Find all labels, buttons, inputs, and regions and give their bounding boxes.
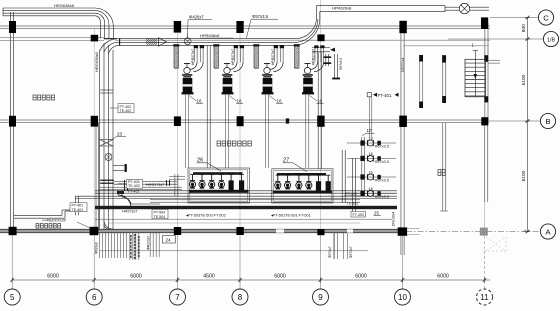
column grid11/A light [480,228,488,236]
svg-text:Φ57x3.5: Φ57x3.5 [375,160,389,164]
label chinese under west label [36,224,39,228]
valve stack assembly 3 [347,176,396,178]
grid construction line x320.5 [320,0,322,229]
duct main top-left horizontal HRG638x8 [3,7,95,9]
pipe drop group F x344-348 [343,233,345,259]
grid bubble A [540,224,555,239]
pump unit 2 leader and label 16 [229,96,237,102]
svg-text:1/B: 1/B [547,38,555,44]
pump unit 4 leader and label 16 [310,96,318,102]
svg-text:16: 16 [317,99,323,104]
pipe run y196 long [75,195,397,197]
svg-text:HΦΦ273x7: HΦΦ273x7 [146,183,164,187]
svg-text:6000: 6000 [47,273,59,279]
pump unit 2 flanges [222,74,232,76]
duct branch right y167 [113,164,125,166]
svg-text:C: C [543,13,549,22]
fitting circle-cross on header at unit1 [184,38,191,45]
boxed label PT-402 TE-402 [118,104,134,113]
svg-text:◂PT-501TE-501 FT-501: ◂PT-501TE-501 FT-501 [271,214,311,218]
svg-text:HPΦ273x7: HPΦ273x7 [191,49,195,65]
svg-text:HRG638x8: HRG638x8 [54,3,75,8]
column grid B row 5 [317,116,324,127]
pump unit 1 body [183,78,193,94]
pipe drop group E x334-338 [333,233,335,259]
grid stub below wall x12.2 [11,233,13,289]
header pipe HPR638x8 triple [120,38,296,40]
grid bubble 6 [86,289,102,305]
header elbow up to roof duct [296,18,320,46]
wall shaft x421 [419,55,421,108]
duct top-right HPR626x8 [317,5,446,7]
grid stub below wall x240.0 [239,233,241,289]
duct vertical riser x100-113 [99,50,101,229]
grid bubble 10 [395,289,411,305]
svg-text:Φ57x3.5: Φ57x3.5 [375,178,389,182]
svg-text:16: 16 [237,99,243,104]
grid bubble 11 dashed [477,289,493,305]
column top row 7 [481,17,488,29]
svg-text:HPR626x8: HPR626x8 [332,5,352,10]
column grid B row 7 [481,117,488,125]
column grid B row 4 [237,116,244,126]
pump unit 4 supply pipes [314,46,316,63]
duct fitting circle [105,154,112,161]
pump unit 4 risers [294,46,296,68]
grid bubble 9 [313,289,329,305]
grid construction line x94.2 [93,29,95,230]
room label pump hall [217,141,221,146]
duct elbow crossing south wall [104,221,113,230]
svg-text:6: 6 [92,293,97,302]
pipe thin y219 [95,218,392,220]
pipe run y191 long [95,190,397,192]
door swing at grid A east of column [407,227,420,229]
svg-text:Φ630x8: Φ630x8 [95,242,99,254]
pump unit 3 inlet fitting circle [264,67,270,73]
svg-text:5: 5 [10,293,15,302]
svg-text:TE-402: TE-402 [120,109,132,113]
elbow fitting dark cluster x118 [117,191,124,194]
svg-text:Φ57x3.5: Φ57x3.5 [375,195,389,199]
pump unit 3 risers [253,46,255,68]
pipe horizontal pair y182 [114,180,177,182]
column top row 4 [236,21,243,33]
svg-text:TE-504: TE-504 [154,215,166,219]
boxed label PT-403 TE-403 [127,179,143,188]
pump unit 3 leader and label 16 [269,96,277,102]
svg-text:××ΦB200X100: ××ΦB200X100 [42,218,66,222]
svg-text:8100: 8100 [521,170,527,181]
flex connection hatch [146,38,157,45]
pump unit 1 inlet fitting circle [184,67,190,73]
unit4 branch pipe right [312,47,330,49]
svg-text:4500: 4500 [203,273,215,279]
svg-text:10: 10 [398,293,407,302]
riser pair to manifold 26 [206,45,208,168]
pump unit 2 risers [213,46,215,68]
svg-text:PT-502: PT-502 [346,192,358,196]
room label small right [438,170,441,176]
svg-text:16: 16 [369,171,373,175]
svg-text:◂PT-503TE-503 FT-502: ◂PT-503TE-503 FT-502 [186,214,226,218]
vertical feed pair x75 to west inlet [75,196,77,215]
column top row 3 [174,21,181,33]
grid bubble C [490,17,538,19]
pump unit 3 body [263,78,273,94]
svg-text:Φ426x7: Φ426x7 [189,15,204,20]
platform edge below wall [100,250,368,252]
flow arrow triangle [159,38,167,46]
pump unit 4 elbow to pump [310,62,317,69]
duct drop from roof to floor cap [99,21,101,38]
svg-text:7: 7 [175,293,180,302]
vertical pipe pair x353 [352,158,354,215]
svg-text:HPΦ273x7: HPΦ273x7 [231,49,235,65]
svg-text:HPΦ273x7: HPΦ273x7 [271,49,275,65]
pump unit 4 inlet fitting circle [304,67,310,73]
svg-text:24: 24 [166,238,172,243]
main header dark band y207 [95,206,397,209]
svg-text:NΦ200x4: NΦ200x4 [401,57,405,72]
pump unit 2 body [223,78,233,94]
pump unit 3 flanges [262,74,272,76]
grid stub below wall x177.5 [177,233,179,289]
pipe tick on grid B at x287 [286,118,289,123]
grid bubble B [540,113,555,128]
riser pair to manifold 27 [317,52,319,169]
manifold 26 valves [192,175,194,181]
svg-text:16: 16 [277,99,283,104]
grid bubble 5 [4,289,20,305]
pump unit 1 risers [173,46,175,68]
svg-text:ΦNΦ133x4: ΦNΦ133x4 [348,206,365,210]
boxed label FT-403 [351,211,366,217]
svg-text:18: 18 [369,187,373,191]
manifold box 26 outline [188,168,250,203]
svg-text:18: 18 [369,137,373,141]
manifold box 27 outline [272,169,333,203]
manifold 27 lower header bar [273,191,332,194]
label FT-401 flow line [367,93,371,97]
pump unit 3 tail pipes down [264,95,266,169]
wall interior x96 [95,123,97,230]
pump unit 1 leader and label 16 [189,96,197,102]
pump unit 1 elbow to pump [190,62,197,69]
column grid B row 1 [9,116,16,127]
svg-text:FT-403: FT-403 [353,213,364,217]
manifold 27 upper header bar [277,173,326,176]
svg-text:TE-502: TE-502 [347,202,359,206]
valve stack vertical pipe [361,137,363,196]
west inlet pipe pair [14,214,62,216]
svg-text:Φ273x7: Φ273x7 [349,246,353,258]
boxed label 24 [162,236,175,243]
grid stub below wall x320.5 [320,233,322,289]
wall grid B double line [0,119,489,121]
column top row 5 [317,34,324,41]
pipe sleeve opening south wall [347,229,353,233]
column top row 2 [91,35,99,42]
svg-text:25: 25 [374,210,379,215]
svg-text:HPΦ273x7: HPΦ273x7 [311,49,315,65]
vertical pipe pair x343 [341,150,343,203]
pump unit 1 header tee marks [194,45,198,48]
wall grid10 x403 vertical [400,27,402,255]
column south wall 5 [317,229,324,235]
column south wall 1 [9,227,17,235]
valve stack assembly 1 [347,142,396,144]
column top row 6 [399,21,406,33]
svg-text:HRG638x8: HRG638x8 [94,51,99,72]
svg-text:ΦΦ273x7: ΦΦ273x7 [147,236,151,250]
pump unit 4 flanges [303,74,313,76]
wall right east double [484,23,486,122]
pump unit 2 supply pipes [234,46,236,63]
svg-text:B: B [545,117,550,126]
svg-text:6100: 6100 [521,74,527,85]
pump unit 1 supply pipes [194,46,196,63]
stair walk line with arrow [474,51,476,97]
svg-text:Φ273x7: Φ273x7 [328,246,332,258]
room label electrical left [33,95,36,100]
boxed label PT-504 TE-504 [152,209,168,218]
svg-text:17: 17 [367,128,373,133]
grid stub below wall x402.5 [402,233,404,289]
column top row 1 [9,21,16,33]
stair enclosure left wall [442,55,444,103]
pump unit 2 header tee marks [234,45,238,48]
valve stack assembly 4 [347,192,396,194]
svg-text:8: 8 [238,293,243,302]
unit4 branch stub B flanged [334,54,336,79]
dimension line bottom [12,279,490,281]
grid line A dash-dot [406,231,540,233]
svg-text:11: 11 [480,293,489,302]
manifold 26 upper header bar [193,172,243,175]
vertical dimension line right [527,18,529,232]
pipe drop group B x120-127 [120,233,122,258]
column south wall 4 [236,227,243,235]
wall left west double [10,12,12,233]
pump unit 1 tail pipes down [184,95,186,169]
manifold 26 lower header bar [189,190,249,193]
pipe run y200 [150,199,360,201]
wall top (grid C) double line [0,25,490,27]
grid line 1/B horizontal [0,36,104,38]
valve ticks on left pipes [124,180,126,191]
exhaust symbol circle-cross [459,3,469,13]
pump unit 4 tail pipes down [305,95,307,169]
duct elbow riser to header [100,39,120,54]
column south wall 2 [90,227,99,235]
pump unit 4 header tee marks [314,45,318,48]
svg-text:HPR638x8: HPR638x8 [200,33,220,38]
pipe drop group D x150-159 [149,233,151,257]
svg-text:DN133x4: DN133x4 [392,212,396,226]
pump unit 2 elbow to pump [230,62,237,69]
svg-text:16: 16 [197,99,203,104]
pipe drop group C x129-140 with labels [129,233,131,260]
pipe thin y223 [108,222,360,224]
wall bottom south [0,229,406,232]
grid bubble 1/B [448,38,543,40]
riser pair at grid7 down [174,174,176,196]
column south wall 6 [398,227,407,235]
svg-text:Φ57x3.5: Φ57x3.5 [339,58,343,70]
stair enclosure right wall [484,55,486,103]
grid bubble 8 [232,289,248,305]
grid line 11 vertical [484,123,486,202]
svg-text:TE-403: TE-403 [128,184,140,188]
pump unit 2 inlet fitting circle [224,67,230,73]
manifold 27 valves [277,176,279,182]
grid construction line x177.5 [177,29,179,230]
valve stack assembly 2 [347,157,396,159]
grid construction line x240.0 [239,29,241,230]
column grid B row 6 [399,116,407,127]
svg-text:9: 9 [318,293,323,302]
svg-text:TE-401: TE-401 [72,208,84,212]
svg-text:6000: 6000 [130,273,142,279]
column grid B row 2 [91,116,98,127]
svg-text:6000: 6000 [274,273,286,279]
duct flange ticks [100,89,113,91]
svg-text:16: 16 [369,152,373,156]
pipe elbows mid-left [118,195,131,208]
pump unit 3 elbow to pump [270,62,277,69]
unit4 branch stub A flanged [325,54,327,66]
svg-text:Φ57x3.5: Φ57x3.5 [375,144,389,148]
pump unit 4 body [303,78,313,94]
column south wall 3 [174,227,181,235]
svg-text:23: 23 [117,132,123,137]
stair flight steps [465,59,486,97]
column grid B row 3 [174,116,181,126]
svg-text:6000: 6000 [355,273,367,279]
pump unit 1 flanges [182,74,192,76]
svg-text:HΦ273x7: HΦ273x7 [122,209,137,213]
svg-text:Φ57x3.5: Φ57x3.5 [252,14,269,19]
boxed label PT-401 TL-401 [70,203,87,212]
duct reducer joint 23 target [100,140,113,147]
svg-text:800: 800 [521,24,527,32]
grid bubble 7 [170,289,186,305]
pump unit 2 tail pipes down [224,95,226,169]
grid stub below wall x94.2 [93,233,95,289]
stair stub wall right [488,59,500,61]
wall corridor x444 [442,123,444,211]
pipe drop group A x99-117 [98,233,100,258]
pump unit 3 header tee marks [274,45,278,48]
svg-text:FT-401: FT-401 [378,93,392,98]
svg-text:6000: 6000 [437,273,449,279]
pump unit 3 supply pipes [274,46,276,63]
duct elbow turn down [95,8,113,26]
pipe horizontal pair y188 [100,186,182,188]
door opening in south wall [276,229,284,233]
